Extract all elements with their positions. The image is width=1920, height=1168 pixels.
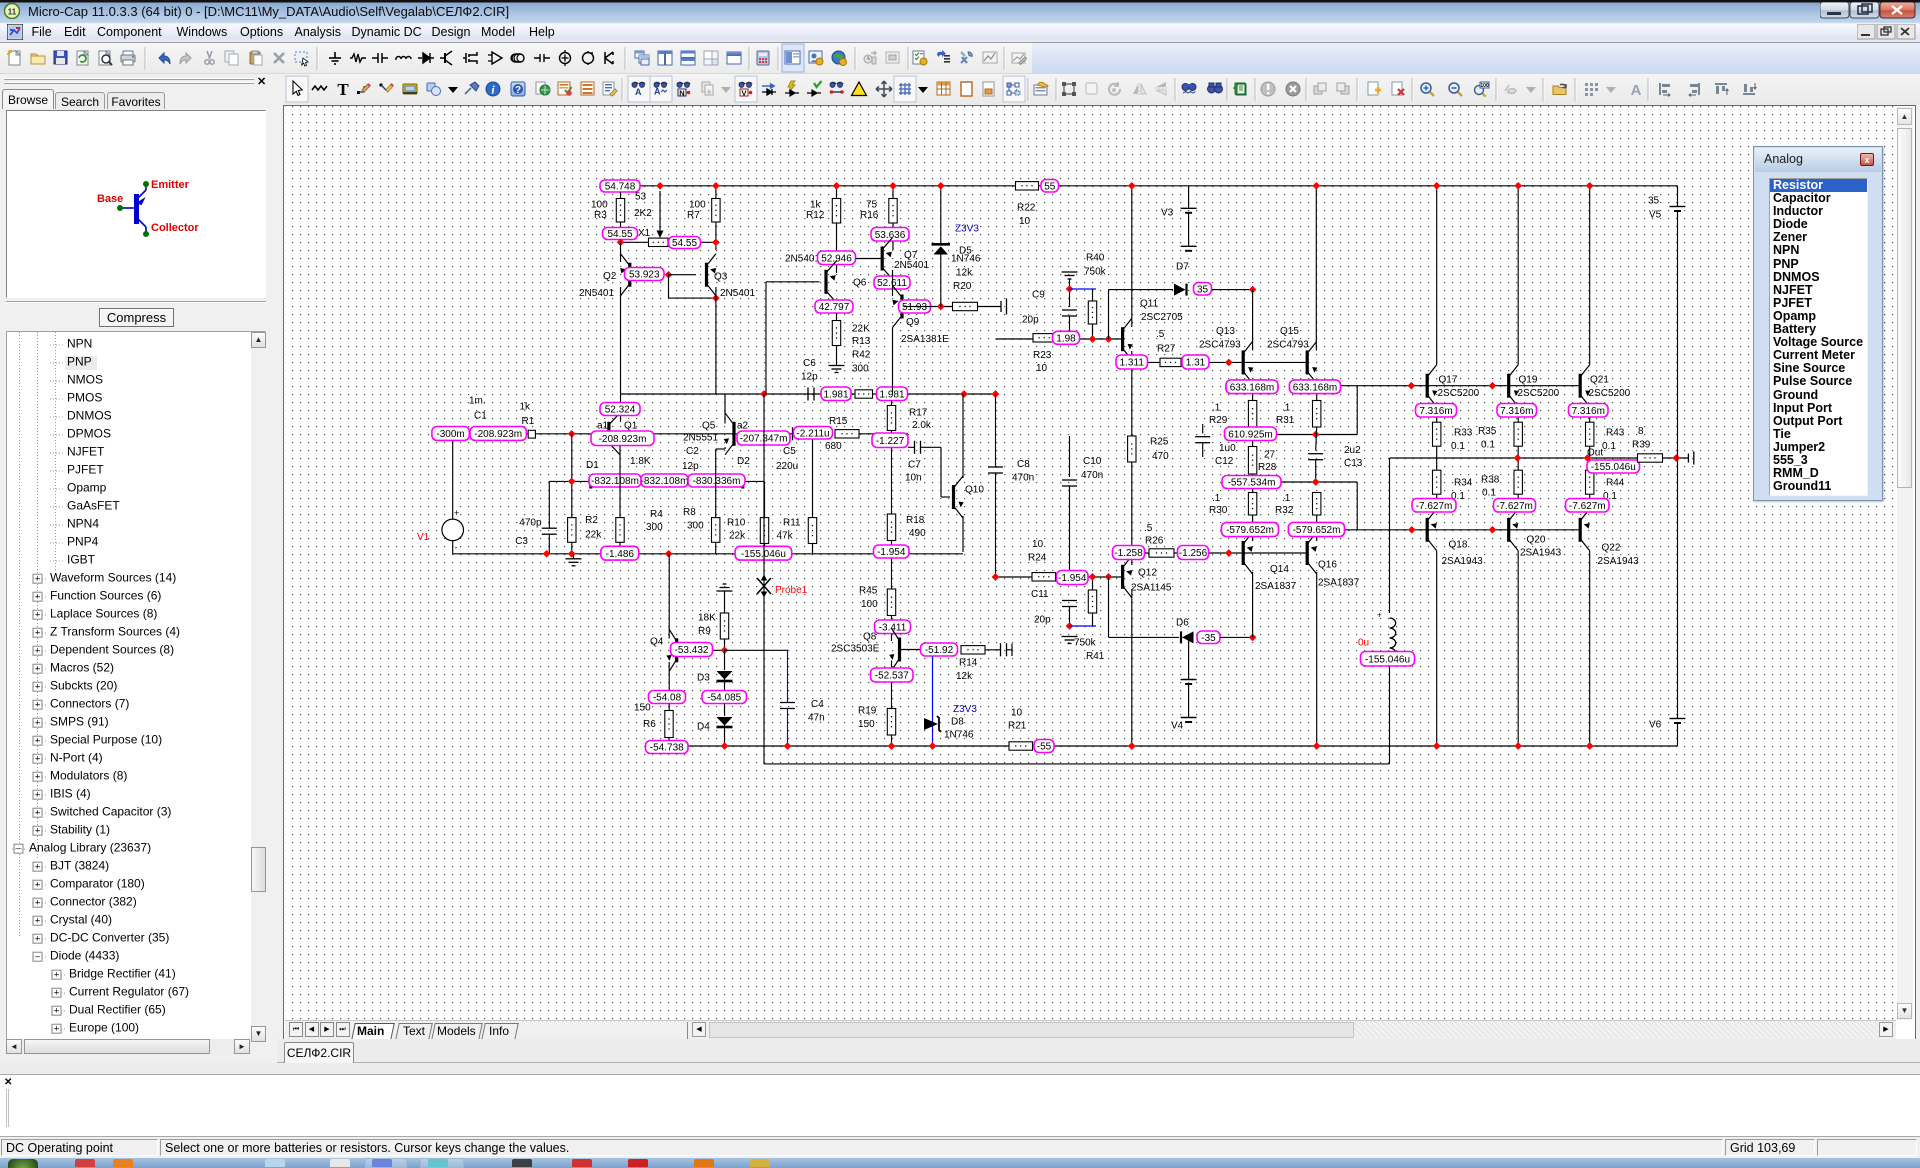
node voltage label -830.336m (688, 474, 745, 487)
svg-text:D6: D6 (1176, 618, 1189, 629)
svg-text:35: 35 (1197, 284, 1209, 295)
svg-text:PNP4: PNP4 (67, 535, 99, 549)
battery V4 (1188, 637, 1190, 679)
svg-text:0.1: 0.1 (1481, 440, 1495, 451)
svg-text:R27: R27 (1157, 344, 1176, 355)
svg-text:-7.627m: -7.627m (1496, 501, 1533, 512)
wire col1 to Q18 (1436, 494, 1438, 509)
potentiometer X1 (649, 238, 669, 246)
transistor Q17 (1426, 365, 1439, 407)
svg-text:2SA1145: 2SA1145 (1131, 583, 1172, 594)
svg-text:47k: 47k (777, 531, 794, 542)
node voltage label -155.046u coil (1361, 652, 1415, 667)
svg-text:2SC5200: 2SC5200 (1518, 388, 1560, 399)
svg-text:DPMOS: DPMOS (67, 427, 111, 441)
junction bottom rail/center column (1128, 742, 1136, 750)
svg-text:54.55: 54.55 (672, 238, 697, 249)
svg-text:470: 470 (1152, 451, 1169, 462)
svg-text:R24: R24 (1028, 553, 1047, 564)
svg-text:2SA1943: 2SA1943 (1520, 548, 1562, 559)
node voltage label 53.923 (625, 268, 665, 281)
wire col3 mid (1589, 446, 1591, 470)
svg-text:2SA1837: 2SA1837 (1255, 581, 1297, 592)
wire R14 to cap (985, 649, 1000, 651)
transistor Q2 (618, 254, 631, 296)
wire R30 to Q14 (1252, 515, 1254, 541)
node voltage label -579.652m right repaint (1289, 523, 1345, 537)
resistor R38 (1514, 470, 1522, 494)
junction C8 column bottom (992, 573, 1000, 581)
wire X1 right (668, 241, 716, 243)
resistor R24 (1032, 573, 1056, 581)
wire R32 to Q16 (1316, 515, 1318, 541)
wire R39 to cap (1663, 457, 1689, 459)
wire 52.946 to Q7 base (856, 258, 881, 260)
junction Q13 base node (1225, 359, 1233, 367)
svg-text:R45: R45 (859, 586, 878, 597)
resistor R21 (1009, 742, 1033, 750)
transistor Q22 (1579, 509, 1592, 551)
wire 610.925m net (1253, 434, 1358, 436)
svg-text:22k: 22k (729, 531, 746, 542)
junction C13 top (1312, 431, 1320, 439)
svg-text:-3.411: -3.411 (879, 622, 907, 633)
transistor Q7 (881, 238, 894, 280)
svg-text:C13: C13 (1344, 458, 1363, 469)
wire Q6 base to mid rail (765, 282, 767, 394)
node voltage label 610.925m (1225, 427, 1277, 441)
wire PNP bus tie (1356, 482, 1358, 530)
svg-text:Q1: Q1 (624, 421, 638, 432)
svg-text:Diode (4433): Diode (4433) (50, 949, 119, 963)
junction D7 branch/Q11 base (1105, 335, 1113, 343)
svg-text:1u0: 1u0 (1219, 443, 1236, 454)
svg-text:V: V (741, 89, 746, 98)
node voltage label -51.92 (921, 643, 958, 656)
svg-text:-54.085: -54.085 (707, 693, 741, 704)
battery V6 (1670, 718, 1686, 720)
svg-text:75: 75 (866, 200, 878, 211)
svg-text:10: 10 (1032, 539, 1044, 550)
diode D1 (589, 476, 592, 489)
node voltage label -55 (1034, 740, 1054, 753)
svg-text:R19: R19 (858, 706, 877, 717)
svg-text:R40: R40 (1086, 253, 1105, 264)
wire NPN base bus (1317, 385, 1580, 387)
svg-text:IBIS (4): IBIS (4) (50, 787, 91, 801)
svg-text:Subckts (20): Subckts (20) (50, 679, 117, 693)
svg-text:Q16: Q16 (1318, 560, 1337, 571)
junction X1 left node (617, 238, 625, 246)
wire D7 branch (1108, 290, 1110, 339)
svg-text:-155.046u: -155.046u (1591, 462, 1636, 473)
transistor Q8 (888, 629, 901, 671)
svg-text:Q13: Q13 (1216, 326, 1235, 337)
zener diode D8 (924, 716, 941, 732)
wire col2 mid (1517, 446, 1519, 470)
svg-text:C10: C10 (1083, 456, 1102, 467)
svg-text:Crystal (40): Crystal (40) (50, 913, 112, 927)
svg-text:22K: 22K (852, 324, 870, 335)
capacitor C11 (1062, 601, 1077, 607)
svg-text:2.0k: 2.0k (912, 420, 932, 431)
resistor R25 (1128, 436, 1136, 462)
node voltage label 53.636 (871, 228, 909, 242)
svg-text:Base: Base (97, 193, 123, 205)
wire mid feedback rail (621, 393, 996, 395)
wire main center column (1131, 186, 1133, 327)
svg-text:R34: R34 (1454, 478, 1473, 489)
svg-text:10: 10 (1019, 216, 1031, 227)
transistor Q11 (1121, 318, 1134, 360)
transistor Q4 (665, 629, 678, 671)
svg-text:-53.432: -53.432 (675, 645, 709, 656)
node voltage label -1.954 right (1057, 571, 1089, 585)
blue wire top bias (1070, 288, 1097, 290)
node voltage label 1.311 (1116, 355, 1148, 369)
svg-text:7.316m: 7.316m (1419, 406, 1452, 417)
svg-text:.5: .5 (1144, 523, 1153, 534)
svg-text:?: ? (515, 85, 521, 96)
resistor R15 (835, 430, 859, 438)
svg-text:-7.627m: -7.627m (1416, 501, 1453, 512)
node voltage label 633.168m right (1290, 380, 1341, 394)
svg-text:300: 300 (687, 521, 704, 532)
svg-text:N-Port (4): N-Port (4) (50, 751, 103, 765)
junction rail/Q16 (1313, 742, 1321, 750)
wire col2 to Q20 (1517, 494, 1519, 509)
svg-text:-1.258: -1.258 (1114, 548, 1143, 559)
node voltage label -52.537 (871, 668, 914, 682)
svg-text:.1: .1 (1212, 403, 1221, 414)
svg-text:18K: 18K (698, 613, 716, 624)
wire Q3 collector down (715, 287, 717, 394)
svg-text:Comparator (180): Comparator (180) (50, 877, 145, 891)
junction D6 branch/Q12 base (1105, 573, 1113, 581)
svg-text:-830.336m: -830.336m (693, 476, 741, 487)
svg-text:-7.627m: -7.627m (1569, 501, 1606, 512)
node voltage label -207.347m (737, 431, 790, 445)
wire R15 to -1.227 node (859, 433, 908, 435)
svg-text:.1: .1 (1282, 403, 1291, 414)
node voltage label -7.627m b (1494, 499, 1536, 513)
wire output column 1 top (1436, 186, 1438, 365)
svg-text:C8: C8 (1017, 459, 1030, 470)
svg-text:R39: R39 (1632, 440, 1651, 451)
svg-text:7.316m: 7.316m (1500, 406, 1533, 417)
resistor R3 (620, 192, 622, 199)
svg-text:R11: R11 (783, 518, 801, 529)
junction Q14 base node (1225, 549, 1233, 557)
svg-text:100: 100 (1480, 83, 1489, 89)
node voltage label -155.046u tail (735, 546, 792, 560)
node voltage label -3.411 (875, 620, 911, 634)
svg-text:NJFET: NJFET (67, 445, 105, 459)
wire Q5 collector up (724, 394, 726, 424)
svg-text:R22: R22 (1017, 203, 1036, 214)
junction rail/D5 (937, 182, 945, 190)
wire base node to Q3 (669, 274, 697, 276)
resistor R9 (724, 591, 726, 613)
svg-text:53.923: 53.923 (629, 270, 660, 281)
node voltage label 7.316m b (1497, 404, 1537, 418)
resistor R33 (1433, 422, 1441, 446)
svg-text:52.324: 52.324 (605, 405, 636, 416)
junction rail/D4 (721, 742, 729, 750)
wire R29 to R28 (1252, 427, 1254, 447)
svg-text:Function Sources (6): Function Sources (6) (50, 589, 161, 603)
junction C13 bottom (1312, 478, 1320, 486)
svg-text:R41: R41 (1086, 651, 1105, 662)
svg-text:R14: R14 (959, 658, 978, 669)
svg-text:1.31: 1.31 (1186, 358, 1206, 369)
wire Q8 base to -51.92 (901, 649, 921, 651)
resistor R45 (887, 589, 895, 616)
node voltage label -579.652m left repaint (1222, 523, 1279, 537)
svg-text:220u: 220u (776, 461, 798, 472)
wire +55V top rail (640, 185, 1678, 187)
resistor R20 (953, 302, 978, 310)
node voltage label -54.085 (702, 691, 747, 704)
capacitor C4 on blue net (787, 650, 789, 703)
svg-text:0.1: 0.1 (1482, 488, 1496, 499)
svg-text:C9: C9 (1032, 290, 1045, 301)
node voltage label 1.981 left (821, 387, 851, 401)
junction rail/R19 (888, 742, 896, 750)
transistor Q9 (892, 270, 894, 296)
svg-text:Q14: Q14 (1270, 564, 1289, 575)
svg-text:-51.92: -51.92 (925, 645, 954, 656)
svg-text:54.748: 54.748 (605, 182, 636, 193)
diode D4 (724, 704, 726, 717)
transistor Q16 (1306, 532, 1319, 574)
svg-text:a1: a1 (597, 421, 609, 432)
transistor Q19 (1507, 365, 1520, 407)
svg-text:R10: R10 (727, 518, 746, 529)
svg-text:1k: 1k (520, 402, 532, 413)
node voltage label -579.652m left (1222, 523, 1279, 537)
node voltage label -832.108m b (641, 474, 689, 487)
svg-text:-2.211u: -2.211u (796, 428, 829, 439)
svg-text:Q19: Q19 (1519, 375, 1538, 386)
svg-text:C3: C3 (515, 536, 528, 547)
node voltage label -1.486 (601, 546, 639, 560)
wire D2 to R10 (744, 480, 764, 482)
resistor R22 (1016, 182, 1039, 190)
resistor R16 (892, 186, 894, 199)
node voltage label -832.108m a (589, 474, 641, 487)
junction base bus d (1489, 526, 1497, 534)
wire Q10 collector (962, 394, 964, 478)
svg-text:1N746: 1N746 (944, 730, 974, 741)
junction D6 node (1249, 634, 1257, 642)
wire D7 to Q13 column (1212, 289, 1253, 291)
wire output return rail (764, 763, 1390, 765)
wire Q4 collector to tail (668, 554, 670, 639)
svg-text:2SA1381E: 2SA1381E (901, 334, 949, 345)
svg-text:20p: 20p (1034, 615, 1051, 626)
wire X1 to Q2 (620, 242, 622, 262)
svg-text:-155.046u: -155.046u (1365, 654, 1410, 665)
svg-text:1.8K: 1.8K (630, 456, 651, 467)
wire output column 3 top (1589, 186, 1591, 365)
svg-text:C11: C11 (1031, 589, 1049, 600)
capacitor C5 (793, 427, 799, 440)
wire Q14 to Q16 base (1245, 552, 1306, 554)
resistor R27 (1160, 358, 1181, 366)
svg-text:7.316m: 7.316m (1572, 406, 1605, 417)
svg-text:53: 53 (635, 192, 647, 203)
svg-text:.1: .1 (1282, 493, 1291, 504)
svg-text:Dual Rectifier (65): Dual Rectifier (65) (69, 1003, 166, 1017)
svg-text:Bridge Rectifier (41): Bridge Rectifier (41) (69, 967, 176, 981)
resistor R8 (724, 447, 726, 449)
svg-text:.5: .5 (1156, 329, 1165, 340)
svg-text:-155.046u: -155.046u (741, 549, 786, 560)
svg-text:+: + (454, 508, 459, 518)
junction C3/ground net (543, 550, 551, 558)
svg-text:R35: R35 (1478, 426, 1497, 437)
junction R2/ground net (568, 550, 576, 558)
wire tail/ground net (453, 553, 963, 555)
svg-text:Q9: Q9 (906, 317, 920, 328)
svg-text:2N5401: 2N5401 (894, 260, 929, 271)
node voltage label 1.981 right (877, 387, 908, 401)
wire PNP base bus (1317, 529, 1580, 531)
svg-text:+: + (1377, 611, 1382, 620)
node voltage label 51.93 (899, 300, 931, 313)
svg-text:Q15: Q15 (1280, 326, 1299, 337)
wire Q13 collector (1252, 290, 1254, 351)
wire C3 to -832m net (549, 480, 589, 482)
wire Q21 emitter (1589, 407, 1591, 423)
blue wire bottom bias (1070, 625, 1097, 627)
svg-text:NPN4: NPN4 (67, 517, 99, 531)
svg-text:C1: C1 (474, 411, 487, 422)
svg-text:53.636: 53.636 (875, 230, 906, 241)
junction rail/Q15 (1312, 182, 1320, 190)
svg-text:54.55: 54.55 (607, 229, 632, 240)
wire Q16 emitter to rail (1316, 572, 1318, 746)
svg-text:C5: C5 (783, 446, 796, 457)
svg-text:V6: V6 (1649, 720, 1662, 731)
wire X1 left (621, 241, 649, 243)
node voltage label 633.168m left repaint (1226, 380, 1278, 394)
svg-text:N: N (679, 89, 684, 98)
node voltage label -1.227 (872, 433, 908, 448)
junction rail/R12 (833, 182, 841, 190)
svg-text:R23: R23 (1033, 350, 1052, 361)
svg-text:Modulators (8): Modulators (8) (50, 769, 127, 783)
node voltage label 54.55 left (603, 228, 638, 241)
resistor R34 (1433, 470, 1441, 494)
wire V5 to V6 (1677, 211, 1679, 718)
svg-text:R28: R28 (1258, 462, 1277, 473)
wire col3 to Q22 (1589, 494, 1591, 509)
junction Q3 collector loop (712, 294, 720, 302)
svg-text:D3: D3 (697, 673, 710, 684)
node voltage label -53.432 (671, 643, 713, 657)
transistor Q15 (1306, 341, 1319, 383)
capacitor at R14 (1001, 643, 1007, 656)
svg-text:20p: 20p (1022, 315, 1039, 326)
node voltage label 7.316m c (1569, 404, 1609, 418)
svg-text:2SA1837: 2SA1837 (1318, 578, 1360, 589)
svg-text:2u2: 2u2 (1344, 445, 1361, 456)
capacitor at R20 (1000, 301, 1002, 312)
inductor L1 (1389, 458, 1391, 613)
junction out rail a (1514, 454, 1522, 462)
svg-text:Z Transform Sources (4): Z Transform Sources (4) (50, 625, 180, 639)
svg-text:11: 11 (8, 8, 17, 17)
resistor R17 (891, 401, 893, 406)
wire input net a1-a2 (453, 433, 795, 435)
svg-text:Special Purpose (10): Special Purpose (10) (50, 733, 162, 747)
junction Q2/Q3 base node (665, 271, 673, 279)
resistor R31 (1313, 401, 1321, 428)
node voltage label -557.534m (1222, 476, 1281, 489)
svg-text:2SC4793: 2SC4793 (1267, 340, 1309, 351)
svg-text:R38: R38 (1481, 475, 1500, 486)
wire col1 mid (1436, 446, 1438, 470)
svg-text:R44: R44 (1606, 478, 1625, 489)
capacitor C13 (1316, 427, 1317, 451)
svg-text:47n: 47n (808, 713, 825, 724)
svg-text:Q3: Q3 (714, 272, 728, 283)
wire Q13 emitter (1252, 381, 1254, 400)
wire V1 to ground net (452, 541, 454, 554)
svg-text:R1: R1 (522, 416, 535, 427)
wire output column 2 top (1517, 186, 1519, 365)
svg-text:A: A (635, 87, 642, 97)
svg-text:12k: 12k (956, 268, 973, 279)
resistor R35 (1514, 422, 1522, 446)
svg-text:-208.923m: -208.923m (474, 429, 522, 440)
svg-text:C7: C7 (908, 460, 921, 471)
resistor R42 body (855, 390, 873, 398)
transistor Q13 (1242, 341, 1255, 383)
svg-text:-52.537: -52.537 (875, 671, 909, 682)
svg-text:-54.08: -54.08 (653, 693, 682, 704)
svg-text:12p: 12p (801, 372, 818, 383)
wire Q2 collector down (620, 287, 622, 422)
wire base loop across (669, 297, 716, 299)
svg-text:R32: R32 (1275, 505, 1294, 516)
svg-text:BJT (3824): BJT (3824) (50, 859, 109, 873)
junction input node (568, 430, 576, 438)
junction R40/base net (1089, 335, 1097, 343)
svg-text:a2: a2 (737, 421, 749, 432)
wire Q14 emitter to D6 node (1252, 572, 1254, 637)
svg-text:Macros (52): Macros (52) (50, 661, 114, 675)
wire Q18 collector (1436, 551, 1438, 746)
diode D6 (1181, 631, 1194, 643)
junction base bus a (1408, 382, 1416, 390)
svg-text:V5: V5 (1649, 210, 1662, 221)
svg-text:Q6: Q6 (853, 278, 867, 289)
svg-text:-1.954: -1.954 (1058, 573, 1087, 584)
svg-text:Laplace Sources (8): Laplace Sources (8) (50, 607, 157, 621)
svg-text:55: 55 (1044, 181, 1056, 192)
ground below C11 (1062, 637, 1078, 644)
svg-text:100: 100 (689, 200, 706, 211)
svg-text:2SC5200: 2SC5200 (1589, 388, 1631, 399)
battery V3 (1188, 186, 1190, 208)
wire Q17 emitter (1436, 407, 1438, 423)
node voltage label -2.211u (794, 427, 833, 440)
resistor R14 (961, 646, 985, 654)
capacitor at R39 (1687, 454, 1689, 463)
